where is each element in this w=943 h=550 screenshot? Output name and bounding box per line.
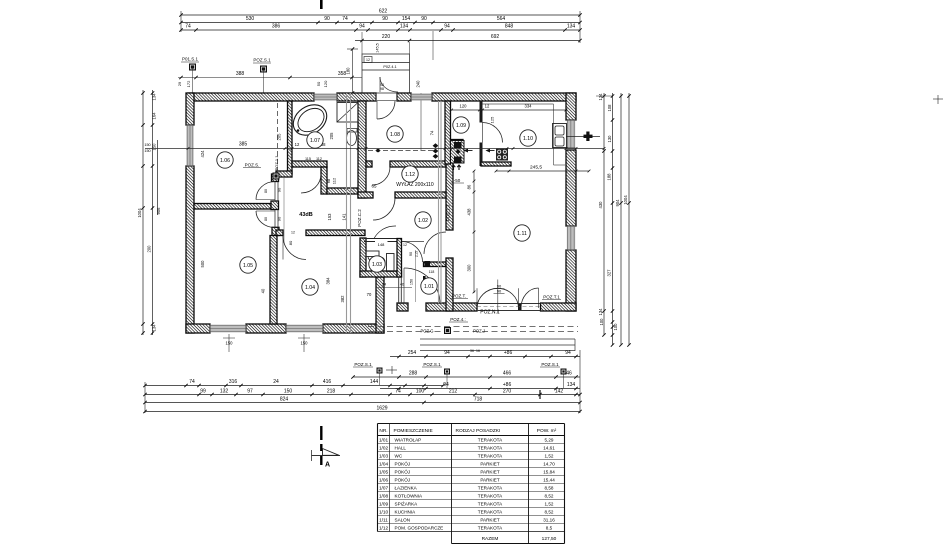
svg-text:1/08: 1/08 xyxy=(379,493,389,498)
svg-text:90: 90 xyxy=(409,252,413,256)
svg-text:1004: 1004 xyxy=(623,195,628,205)
svg-text:1.12: 1.12 xyxy=(405,172,415,178)
svg-text:150: 150 xyxy=(144,143,150,147)
svg-text:1.07: 1.07 xyxy=(310,138,320,144)
svg-text:+86: +86 xyxy=(504,350,513,356)
svg-text:-50: -50 xyxy=(454,178,461,183)
svg-text:144: 144 xyxy=(370,379,379,385)
svg-text:TERAKOTA: TERAKOTA xyxy=(478,525,503,530)
svg-text:622: 622 xyxy=(379,9,388,15)
svg-text:94: 94 xyxy=(359,24,365,30)
svg-text:564: 564 xyxy=(497,16,506,22)
svg-text:530: 530 xyxy=(246,16,255,22)
svg-text:TERAKOTA: TERAKOTA xyxy=(478,445,503,450)
svg-text:1/06: 1/06 xyxy=(379,477,389,482)
svg-text:150: 150 xyxy=(301,341,309,346)
svg-text:14,70: 14,70 xyxy=(543,461,555,466)
svg-text:127,50: 127,50 xyxy=(542,536,557,542)
svg-text:POM. GOSPODARCZE: POM. GOSPODARCZE xyxy=(395,525,444,530)
svg-text:POZ.C.2: POZ.C.2 xyxy=(357,209,362,227)
svg-text:134: 134 xyxy=(598,93,603,101)
svg-text:100: 100 xyxy=(416,389,425,395)
svg-text:8,52: 8,52 xyxy=(545,493,554,498)
svg-text:388: 388 xyxy=(236,71,245,77)
svg-text:TERAKOTA: TERAKOTA xyxy=(478,437,503,442)
svg-text:P0Z.4.1: P0Z.4.1 xyxy=(383,65,396,69)
svg-text:70: 70 xyxy=(367,292,372,297)
svg-text:WYŁAZ 200x110: WYŁAZ 200x110 xyxy=(396,182,434,188)
svg-text:1.01: 1.01 xyxy=(424,284,434,290)
svg-text:NR.: NR. xyxy=(379,428,387,434)
svg-text:POZ.S.: POZ.S. xyxy=(245,163,260,168)
svg-text:TERAKOTA: TERAKOTA xyxy=(478,501,503,506)
svg-text:POW. m²: POW. m² xyxy=(537,428,557,434)
svg-text:1/09: 1/09 xyxy=(379,501,389,506)
svg-text:1629: 1629 xyxy=(376,406,387,412)
svg-text:316: 316 xyxy=(229,379,238,385)
svg-text:A: A xyxy=(325,462,330,469)
svg-text:PARKIET: PARKIET xyxy=(480,517,500,522)
svg-text:86: 86 xyxy=(467,184,472,189)
svg-text:POZ.T.: POZ.T. xyxy=(452,294,466,299)
svg-text:KOTŁOWNIA: KOTŁOWNIA xyxy=(395,493,424,498)
svg-text:100: 100 xyxy=(599,318,604,326)
svg-text:+86: +86 xyxy=(503,382,512,388)
svg-text:46: 46 xyxy=(400,283,404,287)
svg-text:WC: WC xyxy=(395,453,403,458)
svg-text:SPIŻARKA: SPIŻARKA xyxy=(395,500,419,506)
svg-text:68: 68 xyxy=(326,178,331,183)
svg-text:29: 29 xyxy=(177,81,182,86)
svg-text:14,61: 14,61 xyxy=(543,445,555,450)
svg-text:1.09: 1.09 xyxy=(456,123,466,129)
svg-text:HALL: HALL xyxy=(395,445,407,450)
svg-text:270: 270 xyxy=(503,389,512,395)
svg-text:PARKIET: PARKIET xyxy=(480,469,500,474)
svg-text:200: 200 xyxy=(147,245,152,253)
svg-text:8,5: 8,5 xyxy=(546,525,553,530)
svg-text:SALON: SALON xyxy=(395,517,411,522)
svg-text:300: 300 xyxy=(467,264,472,272)
svg-text:382: 382 xyxy=(340,295,345,303)
svg-text:POKÓJ: POKÓJ xyxy=(395,476,411,482)
svg-text:8,52: 8,52 xyxy=(545,509,554,514)
svg-text:WIATROŁAP: WIATROŁAP xyxy=(395,437,422,442)
svg-text:94: 94 xyxy=(565,350,571,356)
svg-text:180: 180 xyxy=(346,67,351,75)
svg-text:12: 12 xyxy=(403,243,407,247)
svg-text:94: 94 xyxy=(444,350,450,356)
svg-text:1/05: 1/05 xyxy=(379,469,389,474)
svg-text:74: 74 xyxy=(189,379,195,385)
svg-text:386: 386 xyxy=(272,24,281,30)
svg-text:500: 500 xyxy=(200,260,205,268)
svg-text:108: 108 xyxy=(607,104,612,112)
svg-text:PARKIET: PARKIET xyxy=(480,461,500,466)
svg-text:90: 90 xyxy=(382,16,388,22)
svg-text:212: 212 xyxy=(449,389,458,395)
svg-text:POZ.J: POZ.J xyxy=(473,329,485,334)
svg-text:692: 692 xyxy=(491,34,500,40)
svg-text:80: 80 xyxy=(264,189,268,193)
svg-text:132: 132 xyxy=(220,389,229,395)
svg-text:1/10: 1/10 xyxy=(379,509,389,514)
svg-text:1,52: 1,52 xyxy=(545,501,554,506)
svg-text:150: 150 xyxy=(226,341,234,346)
svg-text:24: 24 xyxy=(273,379,279,385)
svg-text:1004: 1004 xyxy=(137,208,142,218)
svg-text:74: 74 xyxy=(395,389,401,395)
svg-text:334: 334 xyxy=(525,104,533,109)
svg-text:172: 172 xyxy=(186,80,191,87)
svg-text:16: 16 xyxy=(476,349,480,353)
svg-text:1/03: 1/03 xyxy=(379,453,389,458)
svg-text:97: 97 xyxy=(247,389,253,395)
svg-text:824: 824 xyxy=(280,397,289,403)
svg-text:90: 90 xyxy=(324,16,330,22)
svg-text:245,5: 245,5 xyxy=(530,165,542,171)
svg-text:430: 430 xyxy=(598,201,603,209)
svg-text:205: 205 xyxy=(329,132,334,140)
svg-text:50: 50 xyxy=(316,81,321,86)
svg-text:ŁAZIENKA: ŁAZIENKA xyxy=(395,485,418,490)
svg-text:1/12: 1/12 xyxy=(379,525,389,530)
svg-text:99: 99 xyxy=(200,389,206,395)
svg-text:12: 12 xyxy=(366,58,370,62)
svg-text:74: 74 xyxy=(342,16,348,22)
svg-text:150: 150 xyxy=(144,149,150,153)
svg-text:1/02: 1/02 xyxy=(379,445,389,450)
svg-text:134: 134 xyxy=(152,324,157,332)
svg-text:PARKIET: PARKIET xyxy=(480,477,500,482)
svg-text:TERAKOTA: TERAKOTA xyxy=(478,493,503,498)
svg-text:1.06: 1.06 xyxy=(220,158,230,164)
svg-text:1.10: 1.10 xyxy=(523,136,533,142)
svg-text:385: 385 xyxy=(239,142,248,148)
svg-text:424: 424 xyxy=(200,150,205,158)
svg-text:215: 215 xyxy=(415,251,419,257)
svg-text:80: 80 xyxy=(264,217,268,221)
svg-text:KUCHNIA: KUCHNIA xyxy=(395,509,417,514)
svg-text:164: 164 xyxy=(152,112,157,120)
svg-text:RAZEM: RAZEM xyxy=(482,536,499,542)
svg-text:65: 65 xyxy=(371,184,377,189)
svg-text:RODZAJ POSADZKI: RODZAJ POSADZKI xyxy=(456,428,501,434)
svg-text:218: 218 xyxy=(327,389,336,395)
svg-text:P01.S.1: P01.S.1 xyxy=(182,57,199,62)
svg-text:1/01: 1/01 xyxy=(379,437,389,442)
svg-text:288: 288 xyxy=(409,371,418,377)
svg-text:1.11: 1.11 xyxy=(517,231,527,237)
svg-text:1.04: 1.04 xyxy=(305,285,315,291)
svg-text:15,44: 15,44 xyxy=(543,477,555,482)
svg-text:5,29: 5,29 xyxy=(545,437,554,442)
svg-text:1.03: 1.03 xyxy=(372,262,382,268)
svg-text:141: 141 xyxy=(342,213,347,221)
svg-text:36: 36 xyxy=(470,349,474,353)
svg-text:94: 94 xyxy=(444,24,450,30)
svg-text:134: 134 xyxy=(400,24,409,30)
svg-text:98: 98 xyxy=(380,87,384,91)
svg-text:POKÓJ: POKÓJ xyxy=(395,468,411,474)
svg-text:148: 148 xyxy=(378,242,385,247)
svg-text:90: 90 xyxy=(277,216,282,221)
svg-text:416: 416 xyxy=(323,379,332,385)
svg-text:94: 94 xyxy=(443,382,449,388)
svg-text:120: 120 xyxy=(323,80,328,87)
svg-text:POZ.1.1: POZ.1.1 xyxy=(274,155,279,171)
svg-text:125: 125 xyxy=(490,116,495,123)
svg-text:12: 12 xyxy=(485,104,490,109)
svg-text:848: 848 xyxy=(505,24,514,30)
svg-text:134: 134 xyxy=(567,382,576,388)
svg-text:POZ.T.1: POZ.T.1 xyxy=(543,295,560,300)
svg-text:POZ.N.1: POZ.N.1 xyxy=(480,310,500,316)
svg-text:12: 12 xyxy=(291,231,295,235)
svg-text:31,16: 31,16 xyxy=(543,517,555,522)
svg-text:POZ.S.1: POZ.S.1 xyxy=(423,362,441,367)
svg-text:80: 80 xyxy=(288,240,293,245)
svg-text:1/11: 1/11 xyxy=(379,517,388,522)
svg-text:134: 134 xyxy=(152,93,157,101)
svg-text:POZ.S.1: POZ.S.1 xyxy=(253,58,271,63)
svg-text:24: 24 xyxy=(382,283,386,287)
svg-text:46: 46 xyxy=(566,371,572,377)
svg-text:205: 205 xyxy=(277,133,282,141)
svg-text:1.05: 1.05 xyxy=(243,263,253,269)
svg-text:906: 906 xyxy=(156,207,161,215)
svg-text:POZ.S.1: POZ.S.1 xyxy=(354,362,372,367)
svg-text:43dB: 43dB xyxy=(299,212,312,218)
svg-text:1,52: 1,52 xyxy=(545,453,554,458)
svg-text:150: 150 xyxy=(410,279,414,285)
svg-text:TERAKOTA: TERAKOTA xyxy=(478,453,503,458)
svg-text:112: 112 xyxy=(316,157,322,161)
svg-text:134: 134 xyxy=(598,308,603,316)
svg-text:466: 466 xyxy=(503,371,512,377)
svg-text:150: 150 xyxy=(152,143,157,151)
svg-text:POKÓJ: POKÓJ xyxy=(395,460,411,466)
svg-text:438: 438 xyxy=(467,208,472,216)
svg-text:90: 90 xyxy=(497,289,502,294)
svg-text:118: 118 xyxy=(429,270,435,274)
svg-text:8,58: 8,58 xyxy=(545,485,554,490)
svg-text:112: 112 xyxy=(332,177,337,184)
svg-text:115: 115 xyxy=(305,157,311,161)
svg-text:1/04: 1/04 xyxy=(379,461,389,466)
svg-text:100: 100 xyxy=(613,323,618,331)
svg-text:154: 154 xyxy=(402,16,411,22)
svg-text:15,84: 15,84 xyxy=(543,469,555,474)
svg-text:1.02: 1.02 xyxy=(418,218,428,224)
svg-text:718: 718 xyxy=(474,397,483,403)
svg-text:120: 120 xyxy=(460,104,468,109)
svg-text:POZ.1.3: POZ.1.3 xyxy=(446,204,451,221)
svg-text:240: 240 xyxy=(416,80,421,88)
svg-text:384: 384 xyxy=(326,277,331,285)
svg-text:74: 74 xyxy=(430,130,435,135)
svg-text:90: 90 xyxy=(277,187,282,192)
svg-text:150: 150 xyxy=(284,389,293,395)
svg-text:134: 134 xyxy=(567,24,576,30)
svg-text:153: 153 xyxy=(327,213,332,221)
svg-text:POZ.4.:: POZ.4.: xyxy=(450,317,466,322)
svg-text:1.08: 1.08 xyxy=(390,132,400,138)
svg-text:TERAKOTA: TERAKOTA xyxy=(478,485,503,490)
svg-text:74: 74 xyxy=(185,24,191,30)
svg-text:TERAKOTA: TERAKOTA xyxy=(478,509,503,514)
svg-text:130: 130 xyxy=(607,135,612,143)
svg-text:254: 254 xyxy=(408,350,417,356)
svg-text:POZ.S.1: POZ.S.1 xyxy=(541,362,559,367)
svg-text:90: 90 xyxy=(421,16,427,22)
svg-text:1/07: 1/07 xyxy=(379,485,389,490)
svg-text:145,5: 145,5 xyxy=(376,43,380,53)
svg-text:POMIESZCZENIE: POMIESZCZENIE xyxy=(394,428,433,434)
svg-text:142: 142 xyxy=(555,389,564,395)
svg-text:327: 327 xyxy=(607,269,612,277)
svg-text:12: 12 xyxy=(295,142,300,147)
svg-text:POZ.G: POZ.G xyxy=(420,329,433,334)
svg-text:40: 40 xyxy=(261,288,266,293)
svg-text:904: 904 xyxy=(615,199,620,207)
svg-text:220: 220 xyxy=(382,34,391,40)
svg-text:188: 188 xyxy=(607,173,612,181)
